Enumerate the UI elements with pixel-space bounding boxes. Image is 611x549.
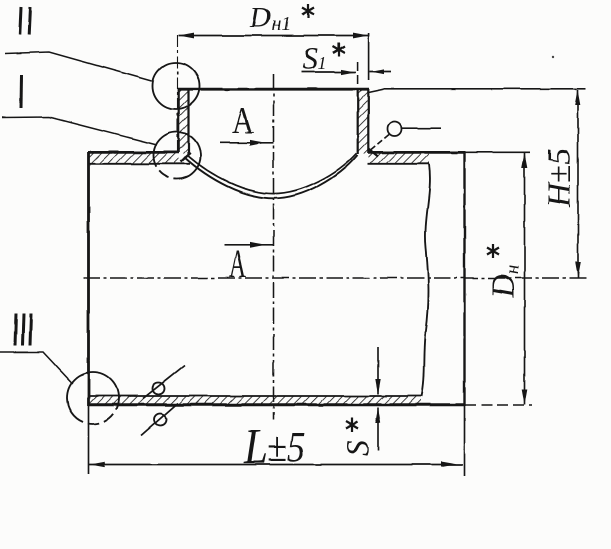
main pipe top-left inner edge xyxy=(89,163,191,165)
section arrow A upper head xyxy=(250,140,266,146)
S lower arrow xyxy=(375,408,380,424)
D_H bottom arrow xyxy=(522,389,528,405)
svg-text:±5: ±5 xyxy=(267,425,305,471)
saddle curve inner xyxy=(187,153,357,193)
S1 dimension right part xyxy=(370,71,392,73)
main pipe bottom edge xyxy=(88,403,465,406)
S dimension lower line xyxy=(377,408,379,452)
branch top edge xyxy=(178,88,369,91)
branch right wall inner edge xyxy=(357,89,359,154)
svg-text:A: A xyxy=(232,101,254,142)
asterisk of D_H xyxy=(487,244,499,258)
S1 left arrow xyxy=(342,69,357,74)
branch right wall hatch xyxy=(358,90,369,154)
weld spot circle xyxy=(388,122,402,136)
detail circle I xyxy=(154,132,201,179)
main pipe top-left wall hatch xyxy=(89,153,179,164)
main pipe bottom wall hatch xyxy=(89,397,421,406)
main pipe top-left outer edge xyxy=(88,151,179,154)
svg-text:H±5: H±5 xyxy=(541,148,578,208)
section arrow A lower line xyxy=(224,244,274,246)
svg-text:S1: S1 xyxy=(302,40,327,76)
detail circle II xyxy=(153,63,200,110)
D_H top extension xyxy=(465,151,530,153)
section arrow A lower head xyxy=(250,242,266,248)
L dimension line xyxy=(89,464,464,466)
section arrow A upper line xyxy=(220,142,274,144)
main pipe right edge xyxy=(463,152,465,406)
break wavy line xyxy=(422,164,430,397)
H dimension top extension xyxy=(384,88,586,90)
svg-text:L: L xyxy=(243,418,268,474)
svg-text:Dн: Dн xyxy=(486,265,523,299)
S upper arrow xyxy=(375,379,380,395)
main pipe top-right outer edge xyxy=(368,151,465,154)
weld spot leader line xyxy=(402,127,442,129)
L dimension right extension xyxy=(464,406,466,476)
branch left wall hatch xyxy=(179,90,189,154)
label III xyxy=(15,314,31,346)
extension centerline through detail circles xyxy=(177,35,179,152)
H top arrow xyxy=(575,90,581,106)
D_H bottom extension (dashed) xyxy=(465,404,532,406)
detail circle III xyxy=(67,372,119,424)
L left arrow xyxy=(90,462,105,468)
weld mark b upper circle xyxy=(153,383,165,395)
weld spot dash leader xyxy=(371,135,389,150)
leader II xyxy=(5,52,152,81)
D_H top arrow xyxy=(522,153,528,168)
leader I xyxy=(2,117,157,145)
main pipe left edge xyxy=(87,152,90,406)
S1 right arrow xyxy=(370,69,385,74)
asterisk of S1 xyxy=(333,43,345,57)
svg-text:A: A xyxy=(229,241,246,286)
leader III xyxy=(0,352,73,384)
D_H dimension line xyxy=(524,153,526,405)
weld bevel top right of branch xyxy=(369,89,385,92)
D_H1 right extension xyxy=(368,33,370,80)
main pipe top-right inner edge xyxy=(368,163,429,165)
D_H1 right arrow xyxy=(353,33,369,39)
H dimension line xyxy=(577,90,579,278)
saddle curve outer xyxy=(184,155,358,198)
L dimension left extension xyxy=(88,406,90,474)
svg-text:Dн1: Dн1 xyxy=(249,2,291,35)
weld mark b lower slash xyxy=(141,403,178,436)
L right arrow xyxy=(441,461,457,467)
weld mark b upper slash xyxy=(143,365,185,399)
label II xyxy=(20,7,31,35)
stray scan dot xyxy=(552,56,554,58)
dimension D_H1 line xyxy=(179,35,369,37)
main pipe horizontal centerline xyxy=(83,277,586,279)
D_H1 left arrow xyxy=(179,33,195,39)
S1 inner extension xyxy=(357,62,359,85)
weld fillet at right wall junction xyxy=(368,149,378,157)
main pipe top-right wall hatch xyxy=(369,153,430,164)
main pipe bottom wall inner edge xyxy=(89,395,422,397)
S1 dimension left part xyxy=(301,71,356,73)
label I xyxy=(20,75,24,108)
asterisk of D_H1 xyxy=(302,4,314,18)
S dimension upper line xyxy=(377,347,379,395)
branch left wall inner edge xyxy=(187,89,189,155)
asterisk of S xyxy=(346,418,358,432)
branch vertical centerline xyxy=(273,74,275,420)
weld fillet at left wall junction xyxy=(181,153,191,162)
H bottom arrow xyxy=(575,262,581,278)
weld mark b lower circle xyxy=(154,414,166,426)
branch left wall outer edge xyxy=(178,89,180,153)
svg-text:S: S xyxy=(339,440,375,456)
branch right wall outer edge xyxy=(367,89,369,153)
